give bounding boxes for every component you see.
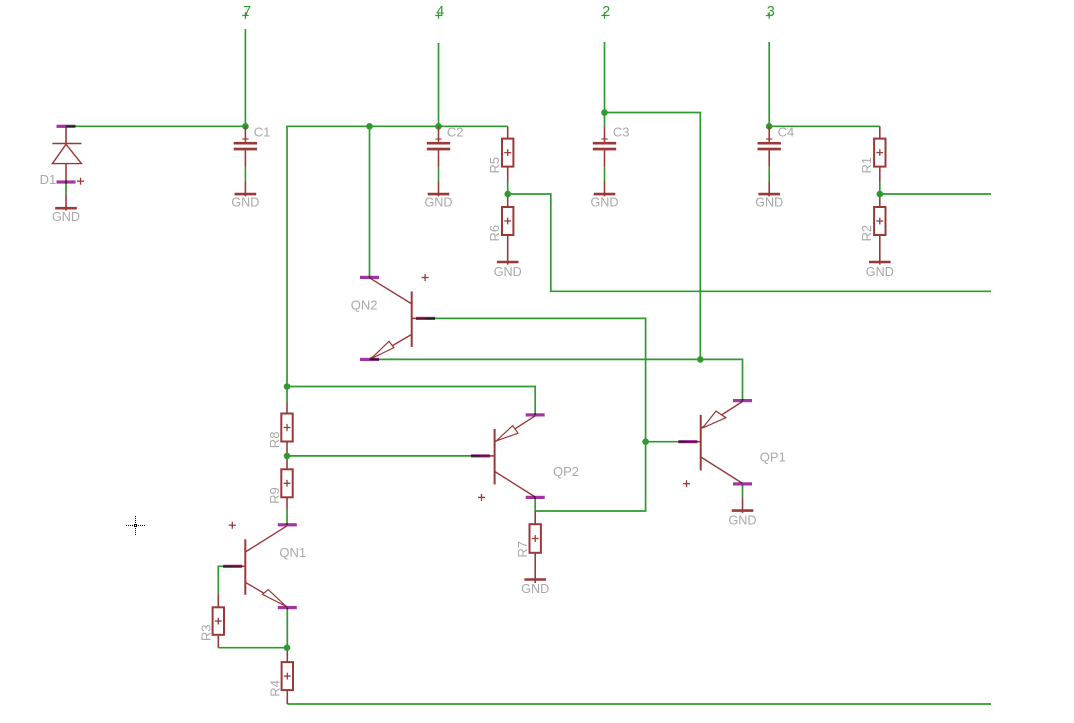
- svg-text:4: 4: [436, 4, 444, 20]
- svg-text:R9: R9: [267, 487, 282, 504]
- svg-text:QP1: QP1: [760, 450, 786, 465]
- svg-text:GND: GND: [866, 265, 894, 279]
- svg-text:C1: C1: [254, 124, 271, 139]
- svg-text:GND: GND: [521, 582, 549, 596]
- svg-text:GND: GND: [755, 196, 783, 210]
- svg-text:QP2: QP2: [553, 464, 579, 479]
- svg-text:C3: C3: [613, 124, 630, 139]
- svg-text:3: 3: [767, 4, 775, 20]
- svg-text:QN2: QN2: [351, 298, 378, 313]
- svg-text:GND: GND: [52, 210, 80, 224]
- svg-text:R2: R2: [859, 225, 874, 242]
- svg-text:GND: GND: [231, 196, 259, 210]
- svg-text:R5: R5: [487, 157, 502, 174]
- svg-text:GND: GND: [729, 514, 757, 528]
- svg-text:C2: C2: [447, 124, 464, 139]
- svg-text:R4: R4: [267, 680, 282, 697]
- svg-text:R7: R7: [515, 541, 530, 558]
- svg-text:R8: R8: [267, 432, 282, 449]
- svg-text:2: 2: [602, 4, 610, 20]
- svg-text:QN1: QN1: [279, 545, 306, 560]
- svg-text:GND: GND: [494, 265, 522, 279]
- svg-text:7: 7: [243, 4, 251, 20]
- svg-text:GND: GND: [425, 196, 453, 210]
- svg-text:GND: GND: [591, 196, 619, 210]
- svg-text:R6: R6: [487, 225, 502, 242]
- svg-text:R3: R3: [198, 624, 213, 641]
- svg-text:C4: C4: [778, 124, 795, 139]
- svg-text:R1: R1: [859, 157, 874, 174]
- svg-text:D1: D1: [40, 172, 57, 187]
